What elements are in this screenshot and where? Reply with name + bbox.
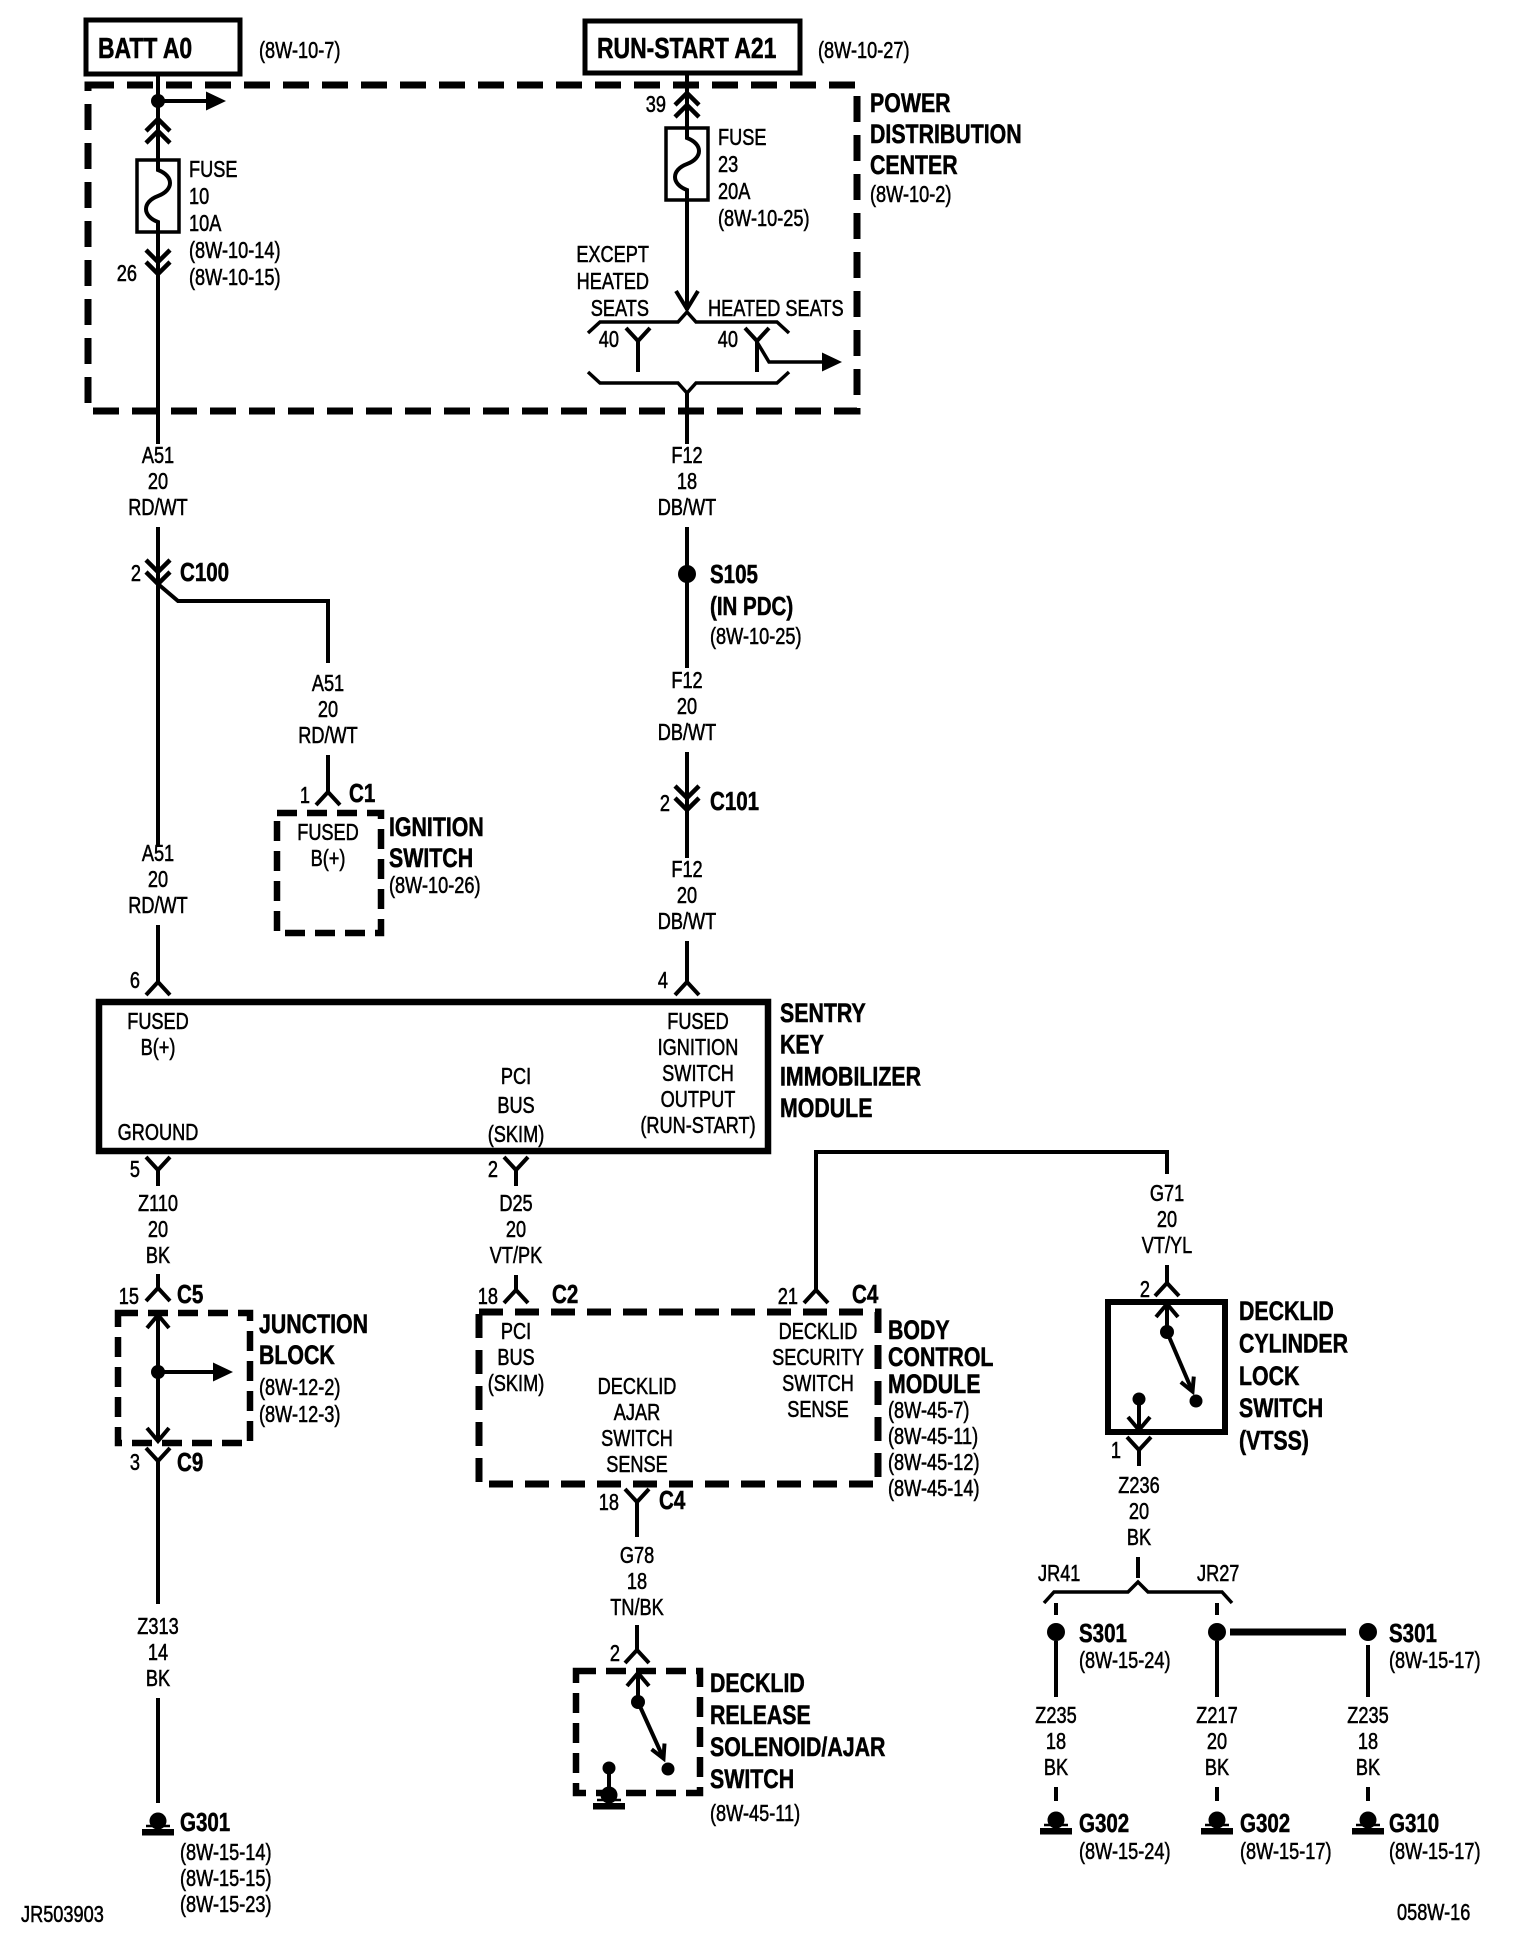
svg-text:18: 18	[677, 469, 697, 495]
svg-text:S301: S301	[1079, 1619, 1127, 1648]
svg-text:MODULE: MODULE	[780, 1094, 872, 1124]
svg-text:18: 18	[1358, 1729, 1378, 1755]
junction block dashed box	[118, 1313, 250, 1443]
wire Z217 down	[1215, 1641, 1219, 1697]
fuse F10	[137, 160, 179, 232]
wire A51 below fuse 10	[156, 232, 160, 444]
wire S301 left down	[1054, 1641, 1058, 1697]
svg-text:1: 1	[300, 783, 310, 809]
svg-text:FUSE: FUSE	[189, 157, 237, 183]
chevrons BATT feed	[146, 119, 170, 143]
dashed stub JR27	[1215, 1603, 1219, 1615]
cylinder switch contact dot	[1190, 1395, 1203, 1408]
svg-text:C5: C5	[177, 1280, 203, 1309]
svg-text:18: 18	[1046, 1729, 1066, 1755]
splice link wire	[1230, 1629, 1346, 1636]
svg-text:10A: 10A	[189, 211, 221, 237]
wire to G302 left	[1054, 1787, 1058, 1801]
svg-text:G301: G301	[180, 1808, 230, 1837]
wire branch from C100 to ignition switch	[158, 584, 328, 663]
wire into pin 1 C1	[326, 755, 330, 792]
svg-text:JR41: JR41	[1038, 1561, 1080, 1587]
pin 6 connector	[146, 968, 170, 995]
svg-text:SWITCH: SWITCH	[662, 1061, 734, 1087]
svg-text:BUS: BUS	[497, 1093, 534, 1119]
svg-text:SWITCH: SWITCH	[389, 844, 473, 874]
svg-text:FUSE: FUSE	[718, 125, 766, 151]
pin 4 connector	[675, 968, 699, 995]
svg-text:(8W-15-24): (8W-15-24)	[1079, 1648, 1171, 1674]
splice S105	[678, 565, 696, 583]
wire into C5	[156, 1275, 160, 1288]
splice dot JR27	[1208, 1623, 1226, 1641]
svg-text:2: 2	[610, 1641, 620, 1667]
arrow to other feeds	[163, 99, 209, 103]
svg-text:39: 39	[646, 92, 666, 118]
svg-text:(SKIM): (SKIM)	[488, 1122, 545, 1148]
svg-text:2: 2	[660, 791, 670, 817]
svg-text:DECKLID: DECKLID	[1239, 1297, 1334, 1327]
svg-text:Z217: Z217	[1196, 1703, 1237, 1729]
junction dot below BATT A0	[151, 94, 165, 108]
svg-text:B(+): B(+)	[141, 1035, 176, 1061]
svg-text:BK: BK	[146, 1243, 170, 1269]
svg-text:LOCK: LOCK	[1239, 1361, 1300, 1391]
svg-text:BODY: BODY	[888, 1316, 950, 1346]
wire into pin 4	[685, 941, 689, 982]
power distribution center dashed box	[88, 85, 857, 411]
pin 1 connector C1	[316, 778, 340, 805]
svg-text:RD/WT: RD/WT	[128, 495, 188, 521]
svg-text:KEY: KEY	[780, 1030, 824, 1060]
svg-text:C2: C2	[552, 1280, 578, 1309]
svg-text:26: 26	[117, 261, 137, 287]
svg-text:18: 18	[627, 1569, 647, 1595]
svg-text:DECKLID: DECKLID	[779, 1319, 858, 1345]
svg-text:CONTROL: CONTROL	[888, 1343, 994, 1373]
svg-text:IMMOBILIZER: IMMOBILIZER	[780, 1062, 921, 1092]
svg-text:10: 10	[189, 184, 209, 210]
pin 1 connector below cylinder switch	[1127, 1437, 1151, 1466]
svg-text:RD/WT: RD/WT	[298, 723, 358, 749]
svg-text:OUTPUT: OUTPUT	[661, 1087, 736, 1113]
dashed stub JR41	[1054, 1603, 1058, 1615]
svg-text:DB/WT: DB/WT	[658, 495, 717, 521]
wire A51 to SKIM	[156, 584, 160, 845]
svg-text:(8W-45-12): (8W-45-12)	[888, 1450, 980, 1476]
cylinder switch pin1 contact dot	[1133, 1393, 1146, 1406]
svg-text:(8W-45-11): (8W-45-11)	[710, 1801, 800, 1827]
splice S301 left	[1047, 1623, 1065, 1641]
svg-text:POWER: POWER	[870, 89, 951, 119]
wire BATT A0 down to fuse 10	[156, 74, 160, 160]
arrowhead into split	[676, 291, 698, 309]
svg-text:C4: C4	[852, 1280, 878, 1309]
svg-text:A51: A51	[142, 841, 174, 867]
svg-text:SWITCH: SWITCH	[782, 1371, 854, 1397]
svg-text:(SKIM): (SKIM)	[488, 1371, 545, 1397]
cylinder switch pin1 wire	[1137, 1399, 1141, 1428]
svg-text:F12: F12	[671, 857, 702, 883]
wire into C101	[685, 752, 689, 810]
pin 18 connector C4 below BCM	[625, 1489, 649, 1537]
svg-text:B(+): B(+)	[311, 846, 346, 872]
svg-text:JR27: JR27	[1197, 1561, 1239, 1587]
svg-text:DECKLID: DECKLID	[710, 1669, 805, 1699]
svg-text:DB/WT: DB/WT	[658, 720, 717, 746]
svg-text:SWITCH: SWITCH	[1239, 1394, 1323, 1424]
svg-text:HEATED: HEATED	[577, 269, 649, 295]
svg-text:Z235: Z235	[1035, 1703, 1076, 1729]
svg-text:PCI: PCI	[501, 1064, 531, 1090]
wire C9 down to Z313 label	[156, 1477, 160, 1604]
svg-text:2: 2	[1140, 1277, 1150, 1303]
svg-text:BATT A0: BATT A0	[98, 31, 192, 64]
pin 15 connector C5	[146, 1274, 170, 1301]
svg-text:1: 1	[1111, 1438, 1121, 1464]
svg-text:20: 20	[1157, 1207, 1177, 1233]
pin 5 connector	[146, 1157, 170, 1186]
svg-text:5: 5	[130, 1157, 140, 1183]
svg-text:JUNCTION: JUNCTION	[259, 1310, 368, 1340]
svg-text:(8W-45-7): (8W-45-7)	[888, 1398, 969, 1424]
decklid cylinder lock switch box	[1108, 1302, 1225, 1432]
svg-text:Z236: Z236	[1118, 1473, 1159, 1499]
connector RUN-START A21 box	[585, 21, 800, 73]
svg-text:TN/BK: TN/BK	[610, 1595, 664, 1621]
svg-text:20: 20	[148, 469, 168, 495]
svg-text:FUSED: FUSED	[667, 1009, 729, 1035]
svg-text:SWITCH: SWITCH	[710, 1765, 794, 1795]
svg-text:Z235: Z235	[1347, 1703, 1388, 1729]
svg-text:RD/WT: RD/WT	[128, 893, 188, 919]
pin 2 connector below SKIM	[504, 1157, 528, 1186]
svg-text:DB/WT: DB/WT	[658, 909, 717, 935]
pin 21 connector C4	[804, 1276, 828, 1303]
svg-text:(8W-10-15): (8W-10-15)	[189, 265, 281, 291]
wire into C100	[156, 527, 160, 584]
pin 2 connector cylinder switch	[1155, 1269, 1179, 1296]
svg-text:JR503903: JR503903	[21, 1902, 104, 1928]
svg-text:SENSE: SENSE	[787, 1397, 849, 1423]
svg-text:(8W-12-2): (8W-12-2)	[259, 1375, 340, 1401]
svg-text:2: 2	[131, 561, 141, 587]
svg-text:G310: G310	[1389, 1809, 1439, 1838]
svg-text:SOLENOID/AJAR: SOLENOID/AJAR	[710, 1733, 886, 1763]
svg-text:HEATED SEATS: HEATED SEATS	[708, 296, 844, 322]
cylinder switch top arrow	[1156, 1304, 1178, 1317]
svg-text:20: 20	[1207, 1729, 1227, 1755]
ignition switch dashed box	[277, 813, 381, 933]
svg-text:(8W-10-7): (8W-10-7)	[259, 38, 340, 64]
wire into S105	[685, 527, 689, 668]
fuse F23	[666, 128, 708, 200]
svg-text:18: 18	[599, 1490, 619, 1516]
cylinder switch arm	[1167, 1332, 1191, 1388]
svg-text:40: 40	[599, 327, 619, 353]
heated seats top brace	[588, 312, 789, 333]
ground G302 left	[1048, 1812, 1065, 1829]
svg-text:20: 20	[506, 1217, 526, 1243]
svg-text:BK: BK	[1127, 1525, 1151, 1551]
svg-text:20: 20	[318, 697, 338, 723]
svg-text:20A: 20A	[718, 179, 750, 205]
ground G310	[1360, 1812, 1377, 1829]
svg-text:RUN-START A21: RUN-START A21	[597, 31, 776, 64]
decklid release top arrow	[627, 1673, 649, 1686]
svg-text:(8W-10-2): (8W-10-2)	[870, 182, 951, 208]
svg-text:(8W-15-14): (8W-15-14)	[180, 1840, 272, 1866]
svg-text:BLOCK: BLOCK	[259, 1341, 335, 1371]
wire into cylinder switch pin 2	[1165, 1265, 1169, 1283]
wire seats split to F12	[685, 392, 689, 444]
svg-text:(8W-10-27): (8W-10-27)	[818, 38, 910, 64]
svg-text:6: 6	[130, 968, 140, 994]
wire into decklid release pin 2	[635, 1625, 639, 1650]
svg-text:IGNITION: IGNITION	[658, 1035, 739, 1061]
svg-text:4: 4	[658, 968, 668, 994]
svg-text:AJAR: AJAR	[614, 1400, 660, 1426]
decklid release ground wire	[607, 1768, 611, 1793]
svg-text:G71: G71	[1150, 1181, 1184, 1207]
chevrons pin 39	[675, 93, 699, 117]
svg-text:(8W-10-14): (8W-10-14)	[189, 238, 281, 264]
wire to G310	[1366, 1787, 1370, 1801]
svg-text:20: 20	[677, 883, 697, 909]
svg-text:14: 14	[148, 1640, 168, 1666]
wire jog to arrow heated seats	[757, 342, 826, 362]
svg-text:CENTER: CENTER	[870, 151, 958, 181]
svg-text:(8W-15-17): (8W-15-17)	[1389, 1839, 1481, 1865]
svg-text:(8W-45-11): (8W-45-11)	[888, 1424, 978, 1450]
heated seats bottom brace	[588, 372, 789, 393]
cylinder switch pole wire	[1165, 1306, 1169, 1326]
svg-text:23: 23	[718, 152, 738, 178]
svg-text:(8W-10-25): (8W-10-25)	[718, 206, 810, 232]
sentry key immobilizer module box	[99, 1002, 768, 1151]
pin 40 except-heated-seats	[626, 328, 650, 372]
svg-text:SENTRY: SENTRY	[780, 999, 866, 1029]
connector BATT A0 box	[86, 20, 240, 74]
svg-text:40: 40	[718, 327, 738, 353]
svg-text:C9: C9	[177, 1448, 203, 1477]
svg-text:S301: S301	[1389, 1619, 1437, 1648]
wire RUN-START down to fuse 23	[685, 73, 689, 128]
svg-text:(RUN-START): (RUN-START)	[640, 1113, 755, 1139]
decklid release ground contact dot	[603, 1762, 616, 1775]
cylinder switch bottom arrow	[1128, 1417, 1150, 1430]
svg-text:C1: C1	[349, 779, 375, 808]
ground G302 middle	[1209, 1812, 1226, 1829]
svg-text:G302: G302	[1240, 1809, 1290, 1838]
svg-text:RELEASE: RELEASE	[710, 1701, 811, 1731]
wire C101 down	[685, 810, 689, 858]
svg-text:DISTRIBUTION: DISTRIBUTION	[870, 120, 1022, 150]
svg-text:(VTSS): (VTSS)	[1239, 1426, 1309, 1456]
svg-text:SENSE: SENSE	[606, 1452, 668, 1478]
svg-text:BK: BK	[1356, 1755, 1380, 1781]
svg-text:BK: BK	[1044, 1755, 1068, 1781]
body control module dashed box	[479, 1312, 878, 1484]
svg-text:18: 18	[478, 1284, 498, 1310]
svg-text:058W-16: 058W-16	[1397, 1900, 1470, 1926]
svg-text:(IN PDC): (IN PDC)	[710, 592, 793, 621]
svg-text:20: 20	[677, 694, 697, 720]
connector C101 chevrons	[675, 786, 699, 810]
svg-text:20: 20	[148, 1217, 168, 1243]
svg-text:D25: D25	[499, 1191, 532, 1217]
wire S301 right down	[1366, 1645, 1370, 1697]
svg-text:S105: S105	[710, 560, 758, 589]
JR splice brace	[1044, 1582, 1232, 1603]
wire Z236 to JR brace	[1136, 1557, 1140, 1578]
svg-text:20: 20	[148, 867, 168, 893]
connector C100 chevrons	[146, 560, 170, 584]
svg-text:(8W-15-23): (8W-15-23)	[180, 1892, 272, 1918]
ground G301	[150, 1813, 167, 1830]
pin 26 chevrons	[146, 250, 170, 274]
svg-text:SECURITY: SECURITY	[772, 1345, 864, 1371]
svg-text:(8W-10-25): (8W-10-25)	[710, 624, 802, 650]
wire to G302 middle	[1215, 1787, 1219, 1801]
cylinder switch pivot dot	[1160, 1325, 1174, 1339]
svg-text:IGNITION: IGNITION	[389, 813, 484, 843]
junction block arrow right	[163, 1370, 216, 1374]
svg-text:FUSED: FUSED	[127, 1009, 189, 1035]
svg-text:C101: C101	[710, 787, 759, 816]
svg-text:CYLINDER: CYLINDER	[1239, 1329, 1348, 1359]
wire BCM pin 21 up and over to G71	[816, 1152, 1167, 1290]
decklid release case ground	[601, 1787, 618, 1804]
svg-text:C100: C100	[180, 558, 229, 587]
svg-text:Z110: Z110	[138, 1191, 178, 1217]
svg-text:F12: F12	[671, 668, 702, 694]
svg-text:BK: BK	[1205, 1755, 1229, 1781]
svg-text:(8W-15-15): (8W-15-15)	[180, 1866, 272, 1892]
decklid release pole wire	[636, 1675, 640, 1696]
svg-text:VT/PK: VT/PK	[490, 1243, 543, 1269]
svg-text:(8W-15-24): (8W-15-24)	[1079, 1839, 1171, 1865]
decklid release contact dot	[662, 1763, 675, 1776]
svg-text:BK: BK	[146, 1666, 170, 1692]
svg-text:PCI: PCI	[501, 1319, 531, 1345]
svg-text:FUSED: FUSED	[297, 820, 359, 846]
junction block internal wire	[156, 1317, 160, 1439]
pin 40 heated-seats	[745, 328, 769, 372]
svg-text:(8W-45-14): (8W-45-14)	[888, 1476, 980, 1502]
svg-text:A51: A51	[142, 443, 174, 469]
svg-text:Z313: Z313	[137, 1614, 178, 1640]
svg-text:GROUND: GROUND	[118, 1120, 199, 1146]
svg-text:15: 15	[119, 1284, 139, 1310]
junction block bottom arrow	[147, 1428, 169, 1441]
svg-text:(8W-15-17): (8W-15-17)	[1240, 1839, 1332, 1865]
svg-text:VT/YL: VT/YL	[1142, 1233, 1192, 1259]
decklid release pivot dot	[631, 1695, 645, 1709]
svg-text:20: 20	[1129, 1499, 1149, 1525]
pin 2 connector decklid release	[625, 1636, 649, 1663]
svg-text:2: 2	[488, 1157, 498, 1183]
wire Z313 to G301	[156, 1698, 160, 1803]
svg-text:(8W-12-3): (8W-12-3)	[259, 1402, 340, 1428]
svg-text:G78: G78	[620, 1543, 654, 1569]
svg-text:C4: C4	[659, 1486, 685, 1515]
splice S301 right	[1359, 1623, 1377, 1641]
junction block junction dot	[151, 1365, 165, 1379]
svg-text:EXCEPT: EXCEPT	[576, 242, 649, 268]
svg-text:21: 21	[778, 1284, 798, 1310]
pin 3 connector C9	[146, 1448, 170, 1477]
wire fuse 23 down to seats split	[685, 200, 689, 310]
svg-text:3: 3	[130, 1450, 140, 1476]
svg-text:SEATS: SEATS	[591, 296, 649, 322]
svg-text:(8W-15-17): (8W-15-17)	[1389, 1648, 1481, 1674]
junction block top arrow	[147, 1315, 169, 1328]
wire into C2	[514, 1275, 518, 1290]
svg-text:F12: F12	[671, 443, 702, 469]
decklid release switch arm	[638, 1702, 662, 1755]
svg-text:SWITCH: SWITCH	[601, 1426, 673, 1452]
svg-text:(8W-10-26): (8W-10-26)	[389, 873, 481, 899]
svg-text:G302: G302	[1079, 1809, 1129, 1838]
svg-text:DECKLID: DECKLID	[598, 1374, 677, 1400]
arrow heated seats out	[822, 353, 842, 372]
pin 18 connector C2	[504, 1276, 528, 1303]
svg-text:BUS: BUS	[497, 1345, 534, 1371]
decklid release solenoid dashed box	[576, 1671, 700, 1793]
svg-text:MODULE: MODULE	[888, 1370, 980, 1400]
svg-text:A51: A51	[312, 671, 344, 697]
